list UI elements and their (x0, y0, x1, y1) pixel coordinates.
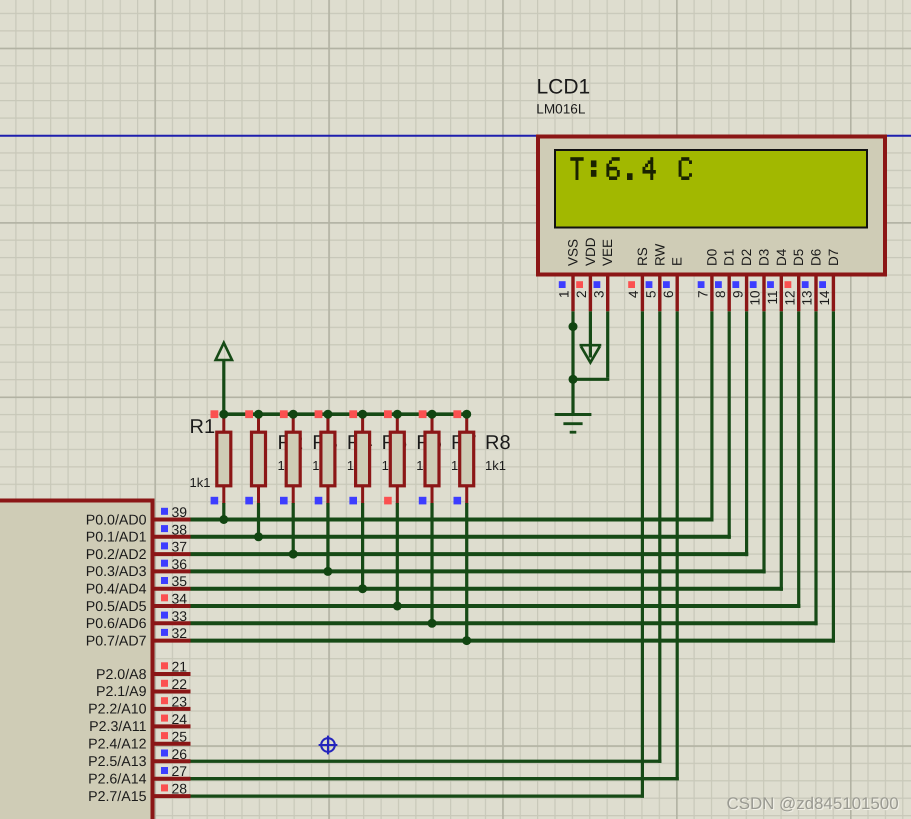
wire LCD VDD (pin2) down to power arrow (589, 311, 592, 357)
svg-text:P0.3/AD3: P0.3/AD3 (86, 564, 147, 580)
wire P0.4 to LCD D4 (191, 587, 783, 591)
wire P2.7 to LCD pin 4 (191, 795, 645, 798)
MCU pin 36 (P0.3/AD3) stub (155, 569, 191, 573)
svg-text:LM016L: LM016L (536, 102, 586, 117)
svg-text:RW: RW (652, 243, 667, 266)
svg-text:D7: D7 (826, 249, 841, 266)
svg-text:P0.1/AD1: P0.1/AD1 (86, 530, 147, 546)
wire P0.3 to LCD D3 (191, 569, 766, 573)
svg-text:25: 25 (172, 728, 188, 744)
svg-text:LCD1: LCD1 (537, 76, 591, 99)
wire P0.5 to LCD D5 (191, 604, 801, 608)
MCU pin 33 (P0.6/AD6) stub (155, 621, 191, 625)
svg-text:22: 22 (172, 676, 188, 692)
svg-text:33: 33 (172, 608, 188, 624)
svg-text:D4: D4 (774, 248, 789, 266)
LCD display text T:6.4 C (570, 157, 692, 180)
MCU pin 26 (P2.5/A13) stub (155, 759, 191, 763)
MCU pin 32 (P0.7/AD7) stub (155, 639, 191, 643)
svg-text:R1: R1 (190, 416, 216, 438)
svg-text:39: 39 (172, 504, 188, 520)
svg-text:D2: D2 (739, 249, 754, 266)
resistor R4 (326, 418, 329, 432)
svg-text:P2.4/A12: P2.4/A12 (88, 737, 146, 753)
MCU pin 38 (P0.1/AD1) stub (155, 535, 191, 539)
wire P0.0 to LCD D0 (191, 518, 714, 522)
svg-text:2: 2 (574, 291, 589, 299)
svg-text:D6: D6 (809, 249, 824, 266)
svg-text:P2.3/A11: P2.3/A11 (89, 719, 146, 735)
svg-text:1k1: 1k1 (190, 475, 211, 490)
svg-text:D5: D5 (791, 249, 806, 266)
svg-text:5: 5 (644, 291, 659, 299)
wire LCD VSS (pin1) down (571, 311, 574, 416)
svg-text:13: 13 (800, 291, 815, 306)
svg-text:P0.4/AD4: P0.4/AD4 (86, 582, 147, 598)
svg-text:D0: D0 (704, 249, 719, 266)
MCU pin 21 (P2.0/A8) stub (155, 672, 191, 676)
svg-text:27: 27 (172, 763, 188, 779)
MCU pin 28 (P2.7/A15) stub (155, 794, 191, 798)
wire P0.1 to LCD D1 (191, 535, 731, 539)
wire P2.6 to LCD pin 6 (191, 777, 679, 780)
svg-text:4: 4 (626, 290, 641, 298)
svg-text:P2.7/A15: P2.7/A15 (88, 789, 146, 805)
svg-text:1: 1 (557, 291, 572, 299)
svg-text:12: 12 (782, 291, 797, 306)
svg-text:8: 8 (713, 291, 728, 299)
svg-text:VEE: VEE (600, 239, 615, 266)
junction node on VSS net (569, 322, 578, 331)
MCU pin 34 (P0.5/AD5) stub (155, 604, 191, 608)
MCU pin 35 (P0.4/AD4) stub (155, 587, 191, 591)
svg-text:28: 28 (172, 781, 188, 797)
resistor R7 (431, 418, 434, 432)
svg-text:P0.0/AD0: P0.0/AD0 (86, 512, 147, 528)
wire P0.7 to LCD D7 (191, 639, 836, 643)
resistor R2 (257, 418, 260, 432)
MCU pin 22 (P2.1/A9) stub (155, 689, 191, 693)
wire LCD VEE (pin3) down and left (606, 311, 609, 378)
svg-text:P0.2/AD2: P0.2/AD2 (86, 547, 147, 563)
resistor R3 (292, 418, 295, 432)
svg-text:23: 23 (172, 693, 188, 709)
svg-text:24: 24 (172, 711, 188, 727)
power terminal VDD arrow (down) (580, 344, 602, 347)
svg-text:P2.5/A13: P2.5/A13 (88, 754, 146, 770)
svg-text:6: 6 (661, 291, 676, 299)
svg-text:1k1: 1k1 (485, 458, 506, 473)
svg-text:10: 10 (748, 291, 763, 306)
svg-text:D1: D1 (722, 249, 737, 266)
svg-text:21: 21 (172, 659, 188, 675)
resistor R5 (361, 418, 364, 432)
svg-text:34: 34 (172, 591, 188, 607)
svg-text:E: E (670, 257, 685, 266)
svg-text:P0.7/AD7: P0.7/AD7 (86, 633, 147, 649)
wire P2.5 to LCD pin 5 (191, 760, 662, 763)
svg-text:P2.6/A14: P2.6/A14 (88, 772, 146, 788)
svg-text:P0.6/AD6: P0.6/AD6 (86, 616, 147, 632)
MCU U1 body (8051 port edge, partially off-canvas) (0, 501, 153, 819)
svg-text:P2.2/A10: P2.2/A10 (88, 702, 146, 718)
svg-text:P2.0/A8: P2.0/A8 (96, 667, 147, 683)
top power bus wire (224, 412, 467, 416)
svg-text:P2.1/A9: P2.1/A9 (96, 684, 147, 700)
svg-text:R8: R8 (485, 432, 511, 454)
ground symbol (555, 413, 592, 416)
svg-text:14: 14 (817, 290, 832, 306)
svg-text:VSS: VSS (566, 239, 581, 266)
power terminal VCC arrow (222, 361, 225, 414)
MCU pin 23 (P2.2/A10) stub (155, 707, 191, 711)
sheet border (blue line) (0, 135, 911, 137)
svg-text:26: 26 (172, 746, 188, 762)
MCU pin 27 (P2.6/A14) stub (155, 777, 191, 781)
MCU pin 37 (P0.2/AD2) stub (155, 552, 191, 556)
svg-text:38: 38 (172, 521, 188, 537)
MCU pin 39 (P0.0/AD0) stub (155, 518, 191, 522)
svg-text:P0.5/AD5: P0.5/AD5 (86, 599, 147, 615)
resistor R8 (465, 418, 468, 432)
svg-text:35: 35 (172, 573, 188, 589)
LCD display area (555, 150, 867, 228)
svg-text:RS: RS (635, 247, 650, 266)
svg-text:36: 36 (172, 556, 188, 572)
resistor R1 (222, 418, 225, 432)
resistor R6 (396, 418, 399, 432)
svg-text:D3: D3 (757, 249, 772, 266)
MCU pin 25 (P2.4/A12) stub (155, 742, 191, 746)
LCD LM016L body (538, 137, 885, 275)
svg-text:32: 32 (172, 625, 188, 641)
svg-text:CSDN @zd845101500: CSDN @zd845101500 (727, 794, 899, 813)
svg-text:VDD: VDD (583, 237, 598, 266)
svg-text:7: 7 (696, 291, 711, 299)
svg-text:37: 37 (172, 539, 188, 555)
svg-text:3: 3 (591, 291, 606, 299)
svg-text:9: 9 (730, 291, 745, 299)
MCU pin 24 (P2.3/A11) stub (155, 724, 191, 728)
wire P0.6 to LCD D6 (191, 621, 818, 625)
svg-text:11: 11 (765, 291, 780, 305)
origin marker (319, 736, 338, 755)
wire P0.2 to LCD D2 (191, 552, 749, 556)
